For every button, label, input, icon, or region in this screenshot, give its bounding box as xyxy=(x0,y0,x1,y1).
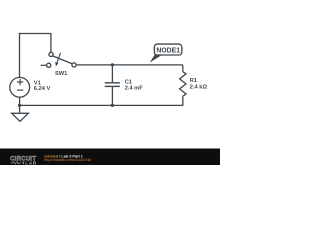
node NODE1 callout xyxy=(150,44,182,63)
wire bottom rail xyxy=(20,104,183,106)
switch left terminal xyxy=(47,63,51,67)
svg-text:6.24 V: 6.24 V xyxy=(34,86,51,92)
svg-text:LAB: LAB xyxy=(25,161,37,165)
wire top horizontal xyxy=(19,33,52,35)
CircuitLab logo resistor squiggle xyxy=(11,162,22,164)
switch left open terminal stub xyxy=(41,64,47,66)
wire V1 bottom lead xyxy=(19,97,21,106)
switch actuator arrow xyxy=(57,53,61,63)
svg-text:R1: R1 xyxy=(190,78,197,84)
junction dot bottom-center xyxy=(111,104,114,107)
switch SW1 xyxy=(41,52,77,67)
capacitor C1 xyxy=(105,83,120,87)
svg-text:http://circuitlab.com/c2uo247c: http://circuitlab.com/c2uo247c6z xyxy=(44,158,91,162)
switch top terminal xyxy=(49,52,53,56)
resistor R1 xyxy=(180,72,186,97)
junction dot top (cap / rail) xyxy=(111,63,114,66)
wire switch to resistor (top rail) xyxy=(76,64,183,66)
CircuitLab logo bolt xyxy=(22,161,24,165)
wire resistor top lead xyxy=(182,65,184,72)
wire resistor bottom lead xyxy=(182,96,184,106)
wire capacitor bottom lead xyxy=(111,87,113,106)
wire top-left vertical (V1 top to corner) xyxy=(19,33,21,78)
wire ground stub xyxy=(19,105,21,113)
svg-text:NODE1: NODE1 xyxy=(156,48,180,55)
svg-text:2.4 mF: 2.4 mF xyxy=(125,85,144,91)
svg-text:2.4 kΩ: 2.4 kΩ xyxy=(190,85,208,91)
watermark bar xyxy=(0,149,220,166)
switch right terminal xyxy=(72,63,76,67)
svg-text:SW1: SW1 xyxy=(55,71,67,77)
ground xyxy=(12,113,29,121)
voltage source V1 xyxy=(10,77,30,97)
junction dot bottom-left xyxy=(18,104,21,107)
switch lever xyxy=(52,55,73,64)
wire capacitor top lead xyxy=(111,65,113,83)
wire down to switch top terminal xyxy=(50,34,52,53)
